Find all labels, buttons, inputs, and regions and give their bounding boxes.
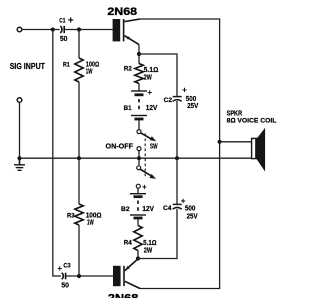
svg-text:500: 500 (186, 96, 197, 103)
node E (Q1 emitter / R2 / C2) (137, 52, 141, 56)
node K (speaker tap) (218, 140, 222, 144)
svg-text:1W: 1W (87, 219, 94, 226)
ground (14, 158, 25, 170)
wire input branch down left side to C3 (53, 30, 61, 277)
svg-text:+: + (147, 87, 152, 97)
node H (R4 / C4 / Q2 emitter) (136, 256, 140, 260)
wire SW contact to rail (138, 151, 140, 159)
svg-text:12V: 12V (142, 206, 154, 213)
svg-text:SPKR: SPKR (227, 110, 243, 117)
node F (switch / ground rail) (137, 156, 141, 160)
battery B1 (131, 91, 147, 130)
svg-text:50: 50 (60, 36, 68, 43)
wire node K to speaker (220, 141, 252, 143)
node I (C2 / C4 / ground rail) (175, 156, 179, 160)
svg-text:+: + (68, 15, 74, 27)
capacitor C3 (62, 273, 66, 280)
wire input top (J1 to C1) (22, 29, 60, 31)
resistor R1 (75, 30, 83, 159)
speaker SPKR (252, 129, 265, 170)
switch SW pole 2 pivot (137, 166, 141, 170)
svg-text:C4: C4 (163, 205, 172, 212)
svg-text:+: + (57, 263, 62, 273)
wire C1 to Q1 base (65, 29, 113, 31)
svg-text:500: 500 (185, 205, 196, 212)
node C (C3 / R3 junction) (77, 274, 81, 278)
svg-text:12V: 12V (146, 105, 158, 112)
svg-text:2N68: 2N68 (107, 6, 137, 18)
terminal J1 (sig input hot) (17, 27, 22, 32)
resistor R3 (75, 158, 83, 276)
node D (R1 / ground rail) (77, 156, 81, 160)
capacitor C1 (60, 26, 64, 33)
wire rail to SW pole 2 pivot (138, 158, 140, 165)
svg-text:+: + (181, 195, 186, 205)
switch SW pole 2 blade (140, 169, 156, 179)
svg-text:C1: C1 (59, 18, 66, 25)
switch SW pole 1 pivot (137, 130, 141, 134)
capacitor C4 (173, 158, 182, 209)
switch SW pole 1 blade (141, 133, 157, 141)
wire Q1 collector top rail / right side / bottom rail (140, 19, 220, 289)
node B (base Q1 / R1 junction) (77, 27, 81, 31)
transistor Q1 (113, 19, 140, 45)
svg-text:2N68: 2N68 (108, 293, 138, 298)
svg-text:+: + (142, 182, 147, 192)
svg-text:SW: SW (150, 144, 158, 151)
svg-text:5.1Ω: 5.1Ω (143, 240, 157, 247)
battery B2 (130, 188, 146, 225)
switch SW pole 2 contact (B2 +) (136, 184, 140, 188)
resistor R4 (134, 226, 142, 259)
svg-text:25V: 25V (187, 213, 198, 220)
svg-text:R2: R2 (124, 65, 132, 72)
transistor Q2 (113, 259, 140, 289)
svg-text:C3: C3 (63, 263, 71, 270)
svg-text:B1: B1 (124, 105, 132, 112)
svg-text:R3: R3 (67, 212, 75, 219)
svg-text:R1: R1 (63, 62, 70, 69)
capacitor C2 (173, 97, 182, 159)
svg-text:5.1Ω: 5.1Ω (144, 67, 159, 74)
svg-text:C2: C2 (164, 97, 173, 104)
node G (ground junction) (17, 156, 21, 160)
svg-text:2W: 2W (144, 75, 153, 82)
switch SW gang dashed link (144, 134, 146, 178)
wire node H to C4 (138, 209, 177, 259)
svg-text:100Ω: 100Ω (86, 212, 102, 219)
svg-text:ON-OFF: ON-OFF (106, 144, 134, 151)
svg-text:8Ω VOICE COIL: 8Ω VOICE COIL (227, 117, 277, 124)
svg-text:1W: 1W (86, 68, 93, 75)
switch SW pole 1 contact (137, 147, 141, 151)
svg-text:B2: B2 (121, 206, 130, 213)
wire node E to C2 (139, 54, 177, 96)
wire ground rail (to speaker low side) (20, 157, 252, 159)
svg-text:2W: 2W (144, 248, 153, 255)
wire Q1 emitter down to node E (138, 45, 140, 64)
svg-text:+: + (182, 84, 187, 94)
svg-text:R4: R4 (124, 239, 132, 246)
svg-text:SIG INPUT: SIG INPUT (10, 62, 46, 71)
wire J2 down to ground rail (19, 102, 21, 158)
terminal J2 (sig input ground) (17, 98, 22, 103)
svg-text:50: 50 (61, 283, 69, 290)
node A (input / C3 branch junction) (51, 27, 55, 31)
resistor R2 (135, 64, 143, 91)
svg-text:25V: 25V (187, 103, 198, 110)
wire C3 to Q2 base (66, 275, 113, 277)
